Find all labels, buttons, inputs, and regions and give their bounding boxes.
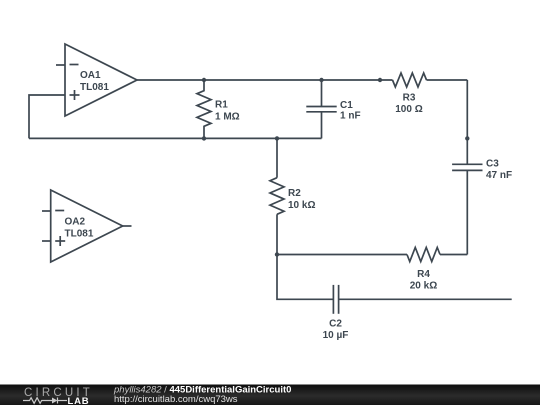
- wire R4 corner: [440, 254, 467, 256]
- svg-text:C1: C1: [340, 100, 353, 111]
- wire OA1 output to R3: [137, 79, 393, 81]
- node before R3: [378, 78, 382, 82]
- svg-text:C3: C3: [486, 159, 499, 170]
- wire right rail down to C3: [466, 80, 468, 165]
- wire R4 to R2 junction: [277, 254, 407, 256]
- svg-text:C2: C2: [329, 319, 342, 330]
- svg-text:TL081: TL081: [65, 229, 94, 240]
- resistor R2: [270, 178, 315, 215]
- svg-text:OA2: OA2: [65, 217, 86, 228]
- node R2 top: [275, 136, 279, 140]
- svg-text:47 nF: 47 nF: [486, 170, 512, 181]
- node C1 top: [319, 78, 323, 82]
- svg-text:20 kΩ: 20 kΩ: [410, 280, 437, 291]
- svg-text:1 nF: 1 nF: [340, 110, 361, 121]
- footer bar: [0, 385, 540, 405]
- svg-text:R3: R3: [403, 93, 416, 104]
- resistor R4: [407, 248, 440, 292]
- wire C2 right: [339, 298, 512, 300]
- CircuitLab logo: [23, 387, 93, 405]
- wire feedback OA1 plus input: [29, 95, 65, 138]
- node R1 bottom: [202, 136, 206, 140]
- wire R3 to right corner: [427, 79, 468, 81]
- svg-text:R1: R1: [215, 100, 228, 111]
- resistor R3: [393, 73, 427, 115]
- capacitor C1: [306, 80, 360, 138]
- op-amp OA1: [56, 44, 137, 116]
- resistor R1: [197, 80, 240, 138]
- svg-text:100 Ω: 100 Ω: [395, 104, 422, 115]
- svg-text:1 MΩ: 1 MΩ: [215, 112, 240, 123]
- wire R2 top lead: [276, 138, 278, 177]
- wire down to C2 branch: [277, 255, 333, 300]
- svg-text:OA1: OA1: [80, 70, 101, 81]
- svg-text:R2: R2: [288, 188, 301, 199]
- svg-text:10 kΩ: 10 kΩ: [288, 200, 315, 211]
- svg-text:LAB: LAB: [68, 396, 90, 405]
- node R1 top: [202, 78, 206, 82]
- svg-text:R4: R4: [417, 269, 430, 280]
- wire C3 to R4 corner: [466, 171, 468, 255]
- wire bottom rail: [29, 137, 322, 139]
- svg-text:10 µF: 10 µF: [323, 330, 349, 341]
- wire R2 bottom lead: [276, 214, 278, 254]
- svg-text:TL081: TL081: [80, 82, 109, 93]
- node right rail: [465, 136, 469, 140]
- op-amp OA2: [42, 190, 132, 262]
- node R2 bottom: [275, 252, 279, 256]
- capacitor C2: [323, 285, 349, 341]
- svg-text:http://circuitlab.com/cwq73ws: http://circuitlab.com/cwq73ws: [114, 394, 238, 405]
- capacitor C3: [452, 159, 512, 182]
